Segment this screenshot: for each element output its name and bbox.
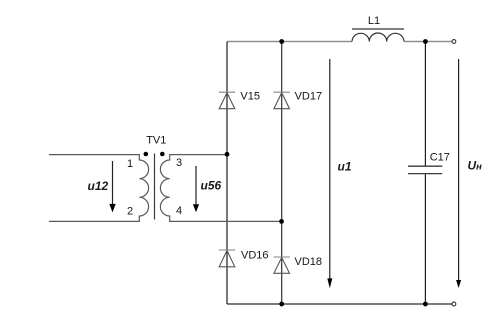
output terminal bottom	[452, 302, 456, 306]
wire capacitor branch upper	[424, 42, 426, 167]
wire top rail right segment (L1 to output terminal)	[404, 41, 452, 43]
junction dot bottom rail / VD18 arm	[279, 302, 284, 307]
wire right bridge arm (VD17 / VD18)	[281, 42, 283, 305]
diode VD18	[274, 257, 290, 273]
voltage arrow Uн	[456, 59, 461, 288]
svg-text:C17: C17	[430, 152, 450, 164]
diode VD17	[274, 92, 290, 109]
junction dot bottom rail / C17 branch	[423, 302, 428, 307]
wire left bridge arm (V15 / VD16)	[226, 42, 228, 305]
capacitor C17	[408, 166, 442, 173]
svg-text:L1: L1	[368, 15, 380, 27]
voltage arrow u56	[193, 166, 199, 212]
svg-text:u12: u12	[88, 179, 109, 193]
wire capacitor branch lower	[424, 174, 426, 304]
transformer TV1 primary winding with leads	[49, 155, 149, 222]
svg-text:VD16: VD16	[241, 249, 269, 261]
svg-text:TV1: TV1	[146, 134, 166, 146]
svg-text:1: 1	[127, 158, 133, 170]
voltage arrow u12	[109, 161, 115, 212]
diode V15	[219, 92, 235, 109]
svg-text:Uн: Uн	[468, 159, 483, 173]
svg-text:3: 3	[176, 157, 182, 169]
junction dot secondary pin3 lead / left arm	[225, 152, 230, 157]
svg-text:u1: u1	[338, 160, 352, 174]
diode VD16	[219, 250, 235, 267]
output terminal top	[452, 40, 456, 44]
wire top rail left segment (bridge to L1)	[227, 41, 352, 43]
wire bottom rail	[227, 303, 452, 305]
transformer polarity dot (secondary)	[160, 152, 165, 157]
svg-text:4: 4	[176, 205, 182, 217]
transformer TV1 core	[154, 154, 156, 220]
junction dot secondary pin4 lead / right arm	[279, 219, 284, 224]
transformer TV1 secondary winding with leads	[160, 155, 281, 222]
svg-text:2: 2	[127, 205, 133, 217]
svg-text:VD17: VD17	[295, 91, 323, 103]
inductor L1	[352, 29, 404, 42]
voltage arrow u1	[327, 59, 332, 288]
transformer polarity dot (primary)	[144, 152, 149, 157]
svg-text:V15: V15	[240, 91, 260, 103]
svg-text:VD18: VD18	[295, 256, 323, 268]
junction dot top rail / VD17 arm	[279, 39, 284, 44]
svg-text:u56: u56	[201, 179, 222, 193]
junction dot top rail / C17 branch	[423, 39, 428, 44]
